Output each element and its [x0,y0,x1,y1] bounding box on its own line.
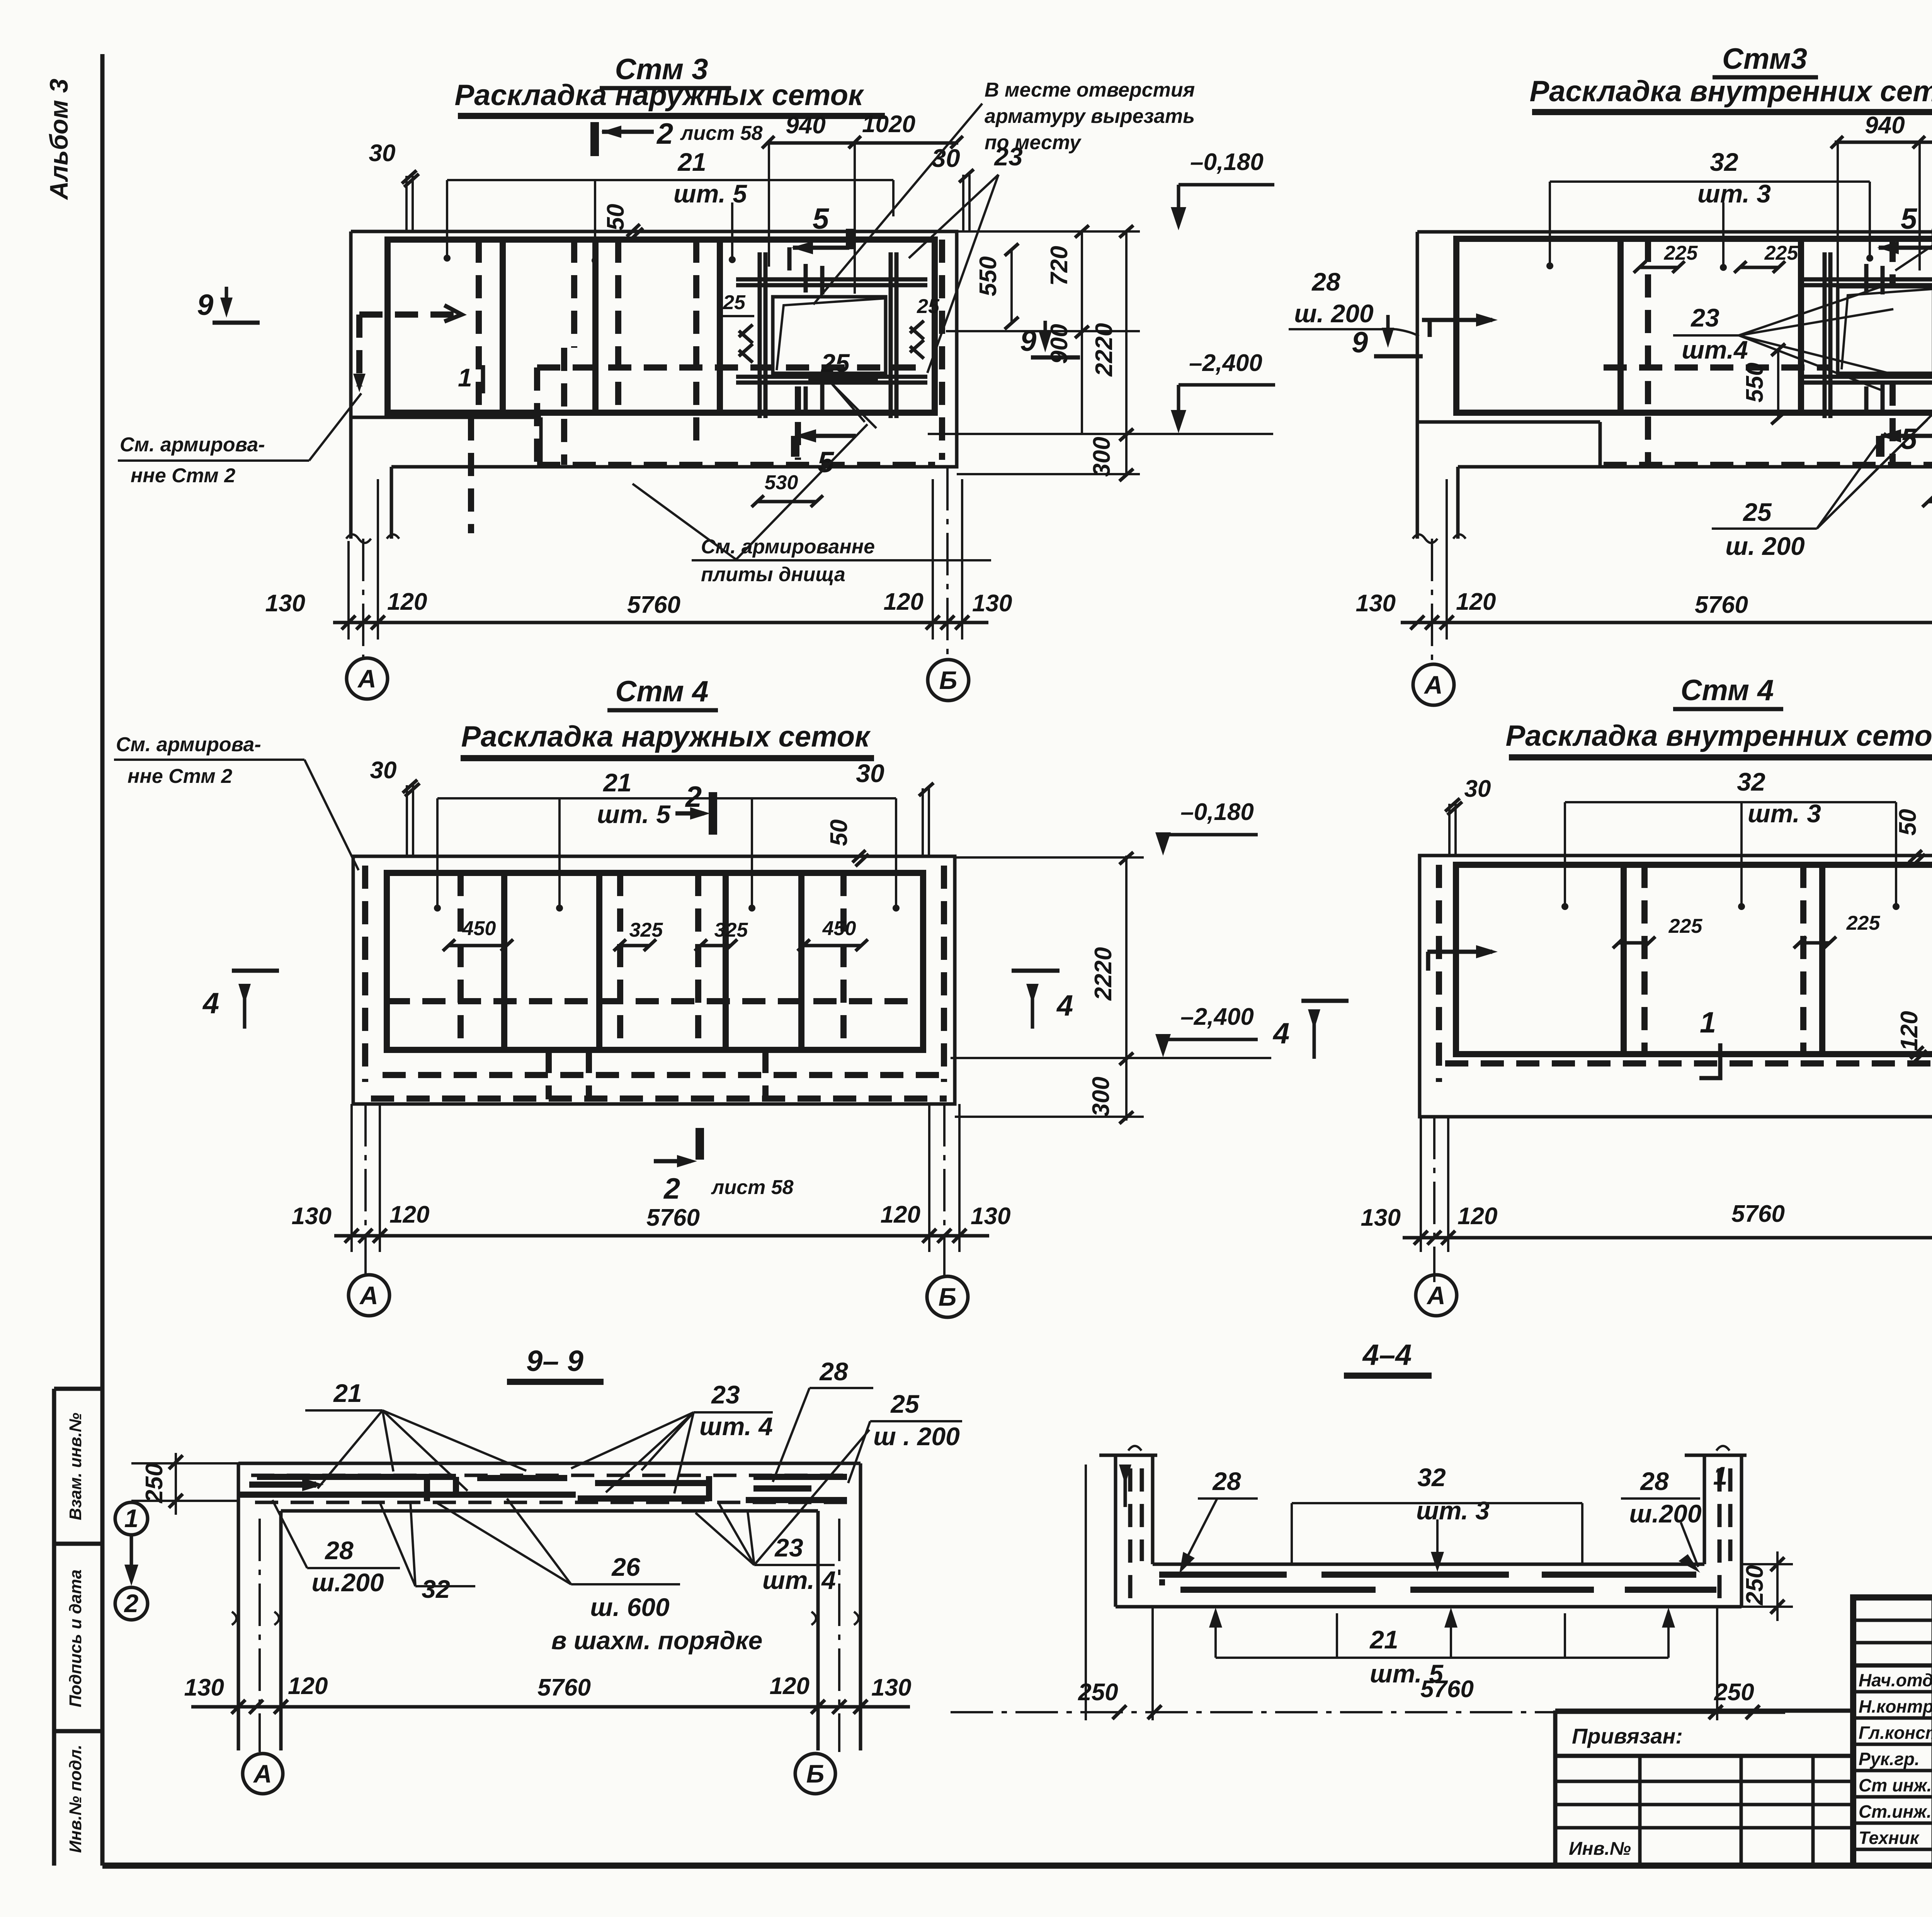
svg-text:См. армированне: См. армированне [701,536,875,558]
svg-text:21: 21 [1369,1625,1398,1654]
svg-text:А: А [1426,1281,1446,1310]
svg-text:325: 325 [714,919,748,941]
svg-text:120: 120 [1458,1203,1497,1230]
svg-text:25: 25 [820,349,850,377]
svg-text:В месте отверстия: В месте отверстия [985,79,1195,101]
svg-text:5760: 5760 [1695,592,1748,618]
svg-text:120: 120 [288,1673,328,1699]
svg-text:32: 32 [422,1575,450,1603]
svg-text:2: 2 [656,117,673,150]
svg-text:–0,180: –0,180 [1190,149,1264,175]
svg-text:шт.4: шт.4 [1682,335,1748,364]
svg-text:9: 9 [1352,326,1368,359]
svg-text:1: 1 [1713,1461,1728,1490]
svg-text:ш.200: ш.200 [311,1568,384,1597]
svg-text:32: 32 [1737,767,1765,796]
svg-text:А: А [357,664,376,693]
svg-text:9: 9 [197,289,213,321]
svg-text:1: 1 [458,363,472,392]
svg-text:250: 250 [1714,1679,1754,1706]
svg-text:25: 25 [890,1390,920,1418]
svg-text:130: 130 [1361,1204,1401,1231]
svg-text:Взам. инв.№: Взам. инв.№ [66,1413,85,1520]
svg-text:130: 130 [871,1674,911,1701]
svg-text:1: 1 [1700,1006,1716,1039]
svg-text:Привязан:: Привязан: [1572,1724,1683,1748]
svg-text:2220: 2220 [1090,947,1117,1001]
svg-text:250: 250 [1078,1679,1118,1706]
svg-text:120: 120 [1456,589,1496,615]
svg-text:шт. 5: шт. 5 [597,800,671,828]
svg-text:ш . 200: ш . 200 [873,1422,960,1451]
svg-text:–2,400: –2,400 [1189,350,1262,376]
svg-text:28: 28 [1212,1467,1241,1495]
svg-text:Стм3: Стм3 [1722,43,1807,75]
svg-text:Техник: Техник [1859,1828,1920,1848]
svg-text:Инв.№: Инв.№ [1569,1839,1631,1859]
svg-text:900: 900 [1046,324,1073,364]
svg-text:1: 1 [124,1504,139,1533]
svg-text:шт. 4: шт. 4 [699,1412,773,1441]
svg-text:130: 130 [184,1674,224,1701]
svg-text:30: 30 [856,759,884,788]
svg-text:450: 450 [462,917,496,940]
svg-text:25: 25 [917,295,940,318]
svg-text:225: 225 [1668,915,1703,937]
svg-text:4–4: 4–4 [1362,1339,1412,1371]
svg-text:23: 23 [1690,303,1719,332]
svg-text:Раскладка внутренних сеток: Раскладка внутренних сеток [1505,720,1932,752]
svg-text:шт. 3: шт. 3 [1416,1496,1490,1525]
svg-text:30: 30 [369,140,396,167]
svg-text:4: 4 [202,987,219,1020]
svg-text:лист 58: лист 58 [680,122,763,145]
svg-text:26: 26 [611,1553,641,1581]
svg-text:А: А [253,1759,272,1788]
svg-text:–0,180: –0,180 [1180,799,1254,825]
svg-text:50: 50 [602,204,629,231]
svg-text:1020: 1020 [862,111,915,138]
svg-text:плиты днища: плиты днища [701,563,845,586]
svg-text:Инв.№ подл.: Инв.№ подл. [66,1745,85,1853]
svg-text:Альбом 3: Альбом 3 [44,79,73,201]
svg-text:–2,400: –2,400 [1180,1004,1254,1030]
svg-text:4: 4 [1056,989,1073,1022]
svg-text:28: 28 [1639,1467,1669,1495]
svg-text:2220: 2220 [1091,323,1117,377]
svg-text:ш. 200: ш. 200 [1725,532,1805,560]
svg-text:28: 28 [1311,267,1340,296]
svg-text:Б: Б [939,1283,957,1311]
svg-text:Раскладка наружных сеток: Раскладка наружных сеток [454,79,864,112]
svg-text:550: 550 [1742,362,1768,402]
svg-text:120: 120 [387,589,427,615]
svg-text:120: 120 [389,1201,429,1228]
svg-text:28: 28 [819,1357,848,1386]
svg-text:325: 325 [629,919,663,941]
svg-text:530: 530 [765,471,798,494]
svg-text:См. армирова-: См. армирова- [120,434,265,456]
svg-text:130: 130 [265,590,305,617]
svg-text:Подпись и дата: Подпись и дата [66,1570,85,1708]
svg-text:шт. 4: шт. 4 [762,1566,836,1594]
svg-text:130: 130 [972,590,1012,617]
svg-text:2: 2 [663,1172,680,1205]
svg-text:Раскладка внутренних сеток: Раскладка внутренних сеток [1529,75,1932,108]
svg-text:по месту: по месту [985,131,1082,154]
svg-text:5760: 5760 [537,1674,591,1701]
svg-text:Н.контр.: Н.контр. [1859,1696,1932,1716]
svg-text:940: 940 [786,112,825,139]
svg-text:См. армирова-: См. армирова- [116,733,261,756]
svg-text:25: 25 [1742,498,1772,526]
svg-text:720: 720 [1046,246,1073,286]
svg-text:25: 25 [723,291,746,314]
svg-text:Б: Б [806,1759,825,1788]
svg-text:23: 23 [711,1380,740,1409]
svg-text:21: 21 [602,768,631,797]
svg-text:нне Стм 2: нне Стм 2 [131,464,235,487]
svg-text:225: 225 [1846,912,1881,934]
svg-text:940: 940 [1865,112,1905,139]
svg-text:А: А [1423,670,1443,699]
svg-text:5760: 5760 [1731,1201,1785,1227]
svg-text:300: 300 [1088,1077,1114,1116]
svg-text:Стм 4: Стм 4 [1680,674,1774,707]
svg-text:Стм 4: Стм 4 [615,675,708,708]
svg-text:120: 120 [884,589,923,615]
svg-text:Рук.гр.: Рук.гр. [1859,1749,1920,1769]
svg-text:в шахм. порядке: в шахм. порядке [551,1626,763,1655]
svg-text:5: 5 [1901,423,1918,456]
svg-text:32: 32 [1710,148,1738,176]
svg-text:шт. 3: шт. 3 [1748,799,1821,828]
svg-text:130: 130 [1356,590,1396,617]
svg-text:арматуру вырезать: арматуру вырезать [985,105,1195,128]
svg-text:120: 120 [1896,1011,1923,1051]
svg-text:50: 50 [826,820,852,846]
svg-text:130: 130 [971,1203,1010,1230]
svg-text:лист 58: лист 58 [711,1176,794,1199]
svg-text:Раскладка наружных сеток: Раскладка наружных сеток [461,720,871,753]
svg-text:ш. 200: ш. 200 [1294,299,1374,328]
svg-text:Гл.констр: Гл.констр [1859,1723,1932,1743]
svg-text:225: 225 [1664,242,1698,264]
svg-text:21: 21 [333,1379,362,1407]
svg-text:2: 2 [124,1589,139,1618]
svg-text:Ст.инж.: Ст.инж. [1859,1801,1932,1822]
svg-text:Нач.отд.: Нач.отд. [1859,1670,1932,1690]
svg-text:250: 250 [141,1463,168,1503]
svg-text:32: 32 [1417,1463,1446,1492]
svg-text:21: 21 [677,148,706,176]
svg-text:Б: Б [939,666,957,694]
svg-text:9: 9 [1020,325,1036,357]
svg-text:50: 50 [1895,809,1921,836]
svg-text:шт. 5: шт. 5 [673,179,747,208]
svg-text:225: 225 [1764,242,1799,264]
svg-text:300: 300 [1088,437,1115,476]
svg-text:нне Стм 2: нне Стм 2 [128,765,232,788]
svg-text:120: 120 [881,1201,920,1228]
svg-text:5760: 5760 [646,1204,700,1231]
svg-text:30: 30 [1464,776,1491,802]
svg-text:5760: 5760 [627,592,680,618]
svg-text:А: А [359,1281,378,1310]
svg-text:28: 28 [324,1536,354,1565]
svg-text:5760: 5760 [1420,1676,1474,1703]
svg-text:130: 130 [292,1203,332,1230]
svg-text:120: 120 [770,1673,810,1699]
svg-text:ш.200: ш.200 [1629,1499,1701,1528]
svg-text:шт. 3: шт. 3 [1697,179,1771,208]
svg-text:30: 30 [370,757,397,784]
svg-text:9– 9: 9– 9 [526,1345,583,1378]
svg-text:450: 450 [822,917,856,940]
svg-text:Ст инж.: Ст инж. [1859,1775,1932,1795]
svg-text:ш. 600: ш. 600 [590,1593,670,1621]
svg-text:550: 550 [975,256,1002,296]
svg-text:4: 4 [1272,1017,1289,1050]
svg-text:250: 250 [1742,1565,1768,1605]
